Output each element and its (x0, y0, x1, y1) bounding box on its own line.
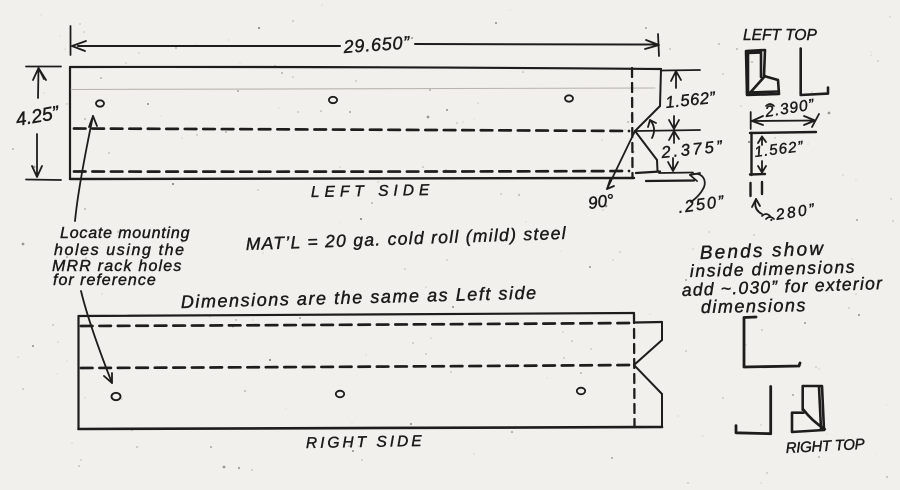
material gap dash right (761, 182, 763, 194)
flange bottom edge (636, 172, 660, 174)
fold dashed vertical line (left panel right end) (631, 68, 634, 178)
bend dashed line lower (right panel) (81, 365, 630, 368)
small arrow down (1.562 int) (758, 161, 766, 173)
svg-text:dimensions: dimensions (701, 295, 807, 317)
right panel flange right edge lower (661, 394, 663, 427)
svg-text:90°: 90° (587, 191, 615, 213)
right notes C-channel sketch (744, 317, 800, 367)
svg-text:holes using the: holes using the (54, 242, 186, 259)
svg-text:LEFT SIDE: LEFT SIDE (311, 182, 435, 201)
leader arrow down to lower hole (81, 291, 112, 383)
right panel flange top edge (635, 321, 662, 324)
90 degree leader line (607, 131, 635, 189)
svg-text:Locate mounting: Locate mounting (60, 225, 190, 242)
right slash tick of 2.390 dim (812, 114, 819, 127)
svg-text:LEFT TOP: LEFT TOP (743, 27, 817, 44)
curved arrow for .280 (755, 199, 762, 214)
bend dashed line upper (right panel) (81, 323, 630, 326)
mounting hole 1 (left panel) (96, 100, 104, 106)
mounting hole 2 (left panel) (329, 97, 337, 103)
bend dashed line upper (left panel) (74, 129, 629, 132)
dim line 2.390 (752, 120, 815, 123)
dim arrow down 2.375 (668, 158, 678, 171)
RIGHT SIDE panel outline (79, 313, 635, 316)
dim arrow down 4.25 (32, 134, 42, 177)
small arrow up (1.562 int) (758, 137, 766, 146)
material gap dash left (749, 183, 751, 196)
leader arrow up to hole 1 (75, 116, 93, 221)
left tick of 2.390 dim (750, 112, 752, 129)
dim double arrows at middle extension (669, 116, 679, 129)
left arrowhead of 29.650 dim (72, 41, 86, 51)
right panel notch lower diagonal (634, 365, 662, 394)
right panel notch upper diagonal (634, 340, 662, 365)
mounting hole 3 (right panel) (577, 388, 585, 395)
dim arrow up 1.562 (671, 71, 681, 88)
svg-text:RIGHT SIDE: RIGHT SIDE (306, 433, 425, 452)
dimension line 29.650 top (78, 45, 340, 47)
right panel flange right edge upper (661, 322, 663, 340)
left extension tick of 29.650 dim (70, 26, 72, 55)
right-bottom J sketch (736, 387, 771, 434)
extension line bottom-left (4.25 dim) (26, 179, 61, 182)
extension line A (top right) (662, 69, 700, 72)
faint fold line (71, 88, 655, 90)
notch lower diagonal (635, 131, 657, 160)
notch upper diagonal (635, 106, 660, 131)
L-section sketch with 1.562 (750, 132, 816, 133)
bend dashed line lower (left panel) (74, 170, 629, 173)
mounting hole 2 (right panel) (336, 391, 344, 398)
left-top boot sketch (bent section view) (746, 50, 779, 95)
notch lower vertical edge (656, 160, 659, 171)
LEFT SIDE panel outline (70, 67, 661, 69)
right-bottom boot sketch (792, 386, 825, 432)
mounting hole 1 (right panel) (112, 393, 121, 400)
extension line top-left (4.25 dim) (26, 66, 61, 68)
flange offset line (646, 179, 694, 182)
extension line B (middle right) (636, 130, 700, 131)
extension line C (bottom right) (659, 172, 693, 175)
svg-text:for reference: for reference (53, 272, 157, 289)
bend angle arc arrow (650, 120, 654, 138)
mounting hole 3 (left panel) (565, 95, 573, 101)
left-top L sketch (801, 49, 828, 95)
90 degree leader arrowhead (607, 180, 614, 189)
curved leader for .250 (690, 174, 705, 202)
fold dashed vertical (right panel) (633, 314, 636, 426)
right extension tick of 29.650 dim (658, 34, 659, 56)
right arrowhead of 29.650 dim (645, 40, 659, 49)
dim arrow up 4.25 (33, 68, 46, 98)
